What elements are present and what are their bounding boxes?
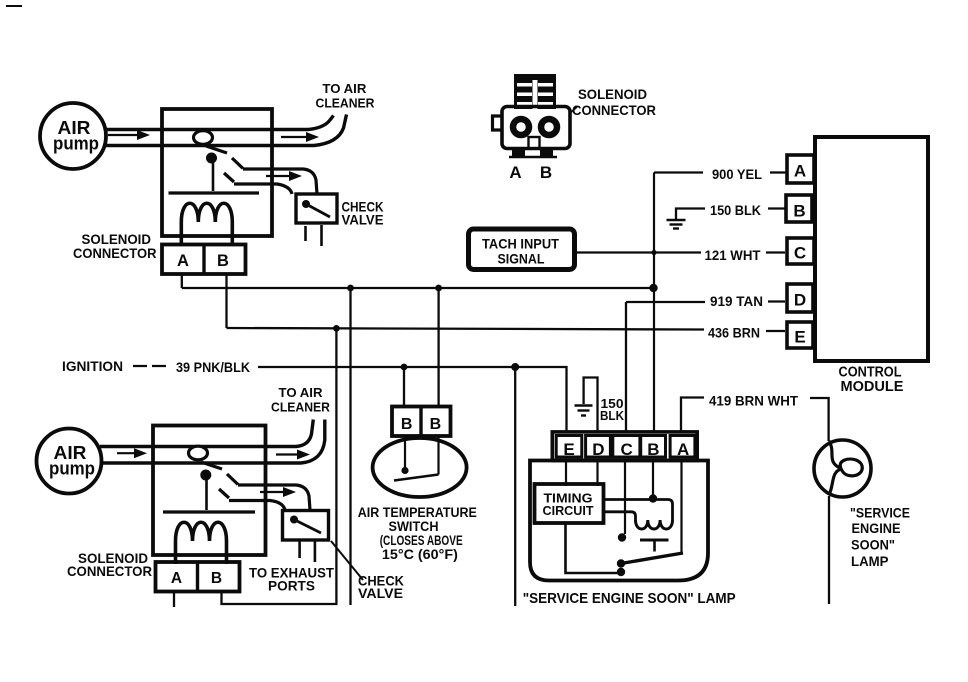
wire to air temp switch left B bbox=[403, 367, 405, 407]
svg-text:E: E bbox=[563, 440, 574, 459]
tach input signal box bbox=[469, 229, 575, 270]
label SOLENOID CONNECTOR (top-left) bbox=[73, 231, 157, 261]
label CHECK VALVE (bottom) bbox=[358, 573, 404, 601]
timing to blade L wire bbox=[566, 523, 619, 573]
pipe to check valve 1 (upper line) bbox=[243, 169, 317, 194]
pipe to check valve 1 (lower line) bbox=[234, 184, 292, 194]
air temp switch left lead bbox=[404, 436, 406, 467]
ground for 150 BLK (module pin B) bbox=[676, 209, 705, 220]
wire 919 TAN from corner to pin D bbox=[626, 301, 705, 303]
svg-text:D: D bbox=[592, 440, 604, 459]
lamp pin A bbox=[670, 436, 695, 458]
valve pivot circle 1 bbox=[194, 131, 213, 145]
air pump 1 (circle) bbox=[40, 103, 106, 169]
solenoid connector icon: left tab bbox=[493, 116, 503, 130]
svg-text:A: A bbox=[171, 570, 182, 587]
label SOLENOID CONNECTOR (icon) bbox=[572, 86, 656, 118]
air temp switch B connector boxes bbox=[392, 407, 451, 437]
solenoid connector icon: ribbed wire top bbox=[514, 74, 556, 109]
check valve 1 pivot dot bbox=[302, 200, 310, 208]
svg-text:pump: pump bbox=[53, 134, 99, 154]
lamp pin B bbox=[641, 436, 666, 458]
svg-text:D: D bbox=[794, 291, 806, 310]
air temp switch contact dot bbox=[401, 467, 408, 474]
lamp lead A down to blade bbox=[680, 461, 682, 553]
svg-text:B: B bbox=[211, 570, 222, 587]
lamp lead D to timing bbox=[596, 461, 598, 487]
svg-text:15°C (60°F): 15°C (60°F) bbox=[382, 547, 458, 562]
pipe pump2 to air cleaner (upper line) bbox=[100, 420, 313, 447]
wire pin A top connector down bbox=[181, 274, 183, 288]
label TO AIR CLEANER (bottom) bbox=[271, 385, 331, 414]
wire tach box to main vertical bbox=[577, 251, 701, 253]
wire 150 BLK dash to pin B bbox=[768, 207, 785, 209]
node tach junction bbox=[651, 250, 656, 255]
label AIR TEMPERATURE SWITCH bbox=[358, 505, 477, 562]
pipe from pump1 (lower line) bbox=[104, 115, 347, 146]
svg-text:B: B bbox=[540, 163, 552, 182]
wire 419 BRN WHT to bulb bbox=[810, 398, 829, 441]
check valve 2 leg right bbox=[314, 540, 317, 562]
timing circuit box bbox=[535, 484, 604, 523]
lamp pin E bbox=[556, 436, 582, 458]
node ignition-x404 bbox=[401, 364, 408, 371]
node row1-x350 bbox=[347, 285, 354, 292]
svg-text:39 PNK/BLK: 39 PNK/BLK bbox=[176, 359, 250, 375]
valve arm diagonal 1 bbox=[206, 146, 227, 153]
air pump 1 label bbox=[53, 118, 99, 154]
svg-text:CONNECTOR: CONNECTOR bbox=[73, 245, 157, 261]
svg-text:B: B bbox=[401, 416, 413, 433]
valve plunger dot 1 bbox=[206, 153, 217, 164]
svg-text:919 TAN: 919 TAN bbox=[710, 293, 763, 309]
svg-text:ENGINE: ENGINE bbox=[852, 520, 901, 536]
svg-text:PORTS: PORTS bbox=[268, 578, 315, 594]
check valve 2 pivot dot bbox=[290, 516, 298, 524]
check valve 1 leg left bbox=[304, 226, 307, 241]
svg-text:SOLENOID: SOLENOID bbox=[578, 86, 647, 102]
relay coil bottom line bbox=[604, 512, 636, 520]
ground 150 BLK near lamp bbox=[584, 378, 598, 433]
svg-text:436 BRN: 436 BRN bbox=[708, 325, 760, 341]
svg-text:150 BLK: 150 BLK bbox=[710, 202, 761, 218]
label TO AIR CLEANER (top) bbox=[316, 81, 376, 110]
valve stem 1 bbox=[212, 163, 215, 191]
module pin A bbox=[787, 155, 814, 183]
wire 436 BRN dash to pin E bbox=[700, 330, 785, 332]
svg-text:SIGNAL: SIGNAL bbox=[498, 251, 545, 267]
relay coil top line bbox=[604, 500, 673, 521]
valve plunger dot 2 bbox=[200, 470, 211, 481]
check valve 2 box bbox=[283, 511, 329, 541]
arrow pump1 to valve bbox=[108, 134, 140, 136]
wire dangling x350 bbox=[349, 288, 351, 605]
svg-text:LAMP: LAMP bbox=[851, 553, 889, 569]
lamp lead B to coil bbox=[652, 461, 654, 500]
label TO EXHAUST PORTS bbox=[249, 565, 334, 594]
svg-text:VALVE: VALVE bbox=[358, 585, 403, 601]
valve pivot circle 2 bbox=[189, 446, 208, 460]
valve flow diagonal lower 1 bbox=[224, 173, 234, 182]
stray mark top-left bbox=[6, 5, 22, 7]
solenoid connector icon: index notch bbox=[529, 137, 540, 148]
lamp lead C to contact bbox=[624, 461, 626, 535]
svg-text:BLK: BLK bbox=[600, 408, 625, 423]
check valve 1 flap bbox=[306, 204, 330, 217]
relay switch blade bbox=[621, 553, 683, 564]
svg-text:pump: pump bbox=[49, 459, 95, 479]
solenoid connector icon: feet bbox=[512, 149, 525, 157]
bulb filament upper curve bbox=[829, 441, 841, 469]
main vertical wire (900YEL/TACH/row1 to lamp pin B) bbox=[653, 173, 655, 433]
svg-text:CONNECTOR: CONNECTOR bbox=[67, 563, 152, 579]
wire 900 YEL left segment bbox=[654, 171, 703, 173]
wire pin B top connector down bbox=[225, 274, 227, 328]
leader line check valve 2 label bbox=[331, 541, 363, 580]
svg-text:"SERVICE: "SERVICE bbox=[850, 505, 910, 521]
svg-text:C: C bbox=[621, 440, 633, 459]
module pin C bbox=[787, 238, 814, 264]
svg-text:B: B bbox=[647, 440, 659, 459]
arrow pump2 to valve bbox=[117, 452, 137, 454]
lamp body outline bbox=[530, 461, 708, 581]
wire row2 (436 BRN bus) bbox=[227, 328, 701, 330]
label SERVICE ENGINE SOON LAMP (right) bbox=[850, 505, 910, 570]
svg-text:419 BRN WHT: 419 BRN WHT bbox=[709, 393, 798, 409]
solenoid connector 1 (A/B box) bbox=[162, 245, 246, 275]
wire lamp pin A up to 419 BRN WHT bbox=[681, 398, 704, 432]
check valve 2 flap bbox=[294, 520, 321, 534]
check valve 1 box bbox=[296, 194, 337, 223]
svg-text:IGNITION: IGNITION bbox=[62, 358, 123, 374]
check valve 2 leg left bbox=[298, 540, 301, 558]
svg-text:TO AIR: TO AIR bbox=[322, 81, 367, 96]
solenoid connector 2 (A/B box) bbox=[156, 562, 240, 592]
relay blade pivot dots bbox=[617, 559, 625, 567]
wire dangling x515 bbox=[514, 367, 516, 606]
wire ignition to lamp pin E bbox=[258, 367, 567, 432]
pipe pump2 (lower line) bbox=[100, 420, 325, 464]
svg-text:CONNECTOR: CONNECTOR bbox=[572, 102, 656, 118]
arrow in pipe to check valve 1 bbox=[266, 175, 293, 177]
valve stem 2 bbox=[205, 480, 208, 510]
valve flow diagonal upper 2 bbox=[227, 474, 238, 485]
svg-text:CLEANER: CLEANER bbox=[316, 95, 376, 110]
svg-text:MODULE: MODULE bbox=[841, 379, 904, 395]
wire to air temp switch right B bbox=[437, 288, 439, 407]
svg-text:A: A bbox=[177, 252, 189, 270]
check valve 1 leg right bbox=[320, 225, 323, 246]
ignition dashes bbox=[133, 365, 166, 367]
wire 121 WHT dash to pin C bbox=[766, 251, 785, 253]
lamp pin row outer box bbox=[552, 432, 697, 461]
node ignition-x515 bbox=[511, 363, 519, 371]
control module box bbox=[815, 137, 928, 361]
svg-text:B: B bbox=[430, 416, 442, 433]
svg-text:900 YEL: 900 YEL bbox=[712, 166, 762, 182]
svg-text:AIR TEMPERATURE: AIR TEMPERATURE bbox=[358, 505, 477, 520]
svg-text:A: A bbox=[509, 163, 521, 182]
svg-text:TACH INPUT: TACH INPUT bbox=[482, 236, 559, 252]
bulb filament loop bbox=[840, 459, 862, 476]
relay coil windings bbox=[636, 520, 673, 529]
label CONTROL MODULE bbox=[839, 365, 904, 396]
svg-text:CLEANER: CLEANER bbox=[271, 399, 331, 414]
air management valve box 2 bbox=[153, 426, 266, 556]
arrow in pipe after valve box 1 bbox=[281, 136, 310, 138]
lamp pin D bbox=[586, 436, 611, 458]
svg-text:(CLOSES ABOVE: (CLOSES ABOVE bbox=[380, 533, 463, 548]
arrow in pipe to check valve 2 bbox=[260, 491, 287, 493]
relay contact dot (C) bbox=[618, 533, 626, 541]
bulb circle bbox=[814, 440, 871, 497]
lamp pin C bbox=[613, 436, 640, 458]
solenoid connector icon: terminal ring B bbox=[541, 119, 557, 135]
check valve 1 label bbox=[342, 199, 384, 228]
wire below bulb bbox=[828, 496, 830, 604]
bulb filament lower curve bbox=[829, 469, 841, 495]
svg-text:TO AIR: TO AIR bbox=[279, 385, 324, 400]
solenoid coil 2 bbox=[176, 522, 227, 564]
svg-text:121 WHT: 121 WHT bbox=[705, 247, 761, 263]
valve seat line 2 bbox=[163, 510, 255, 513]
air management valve box 1 bbox=[162, 109, 272, 236]
solenoid coil 1 bbox=[181, 203, 232, 246]
air temp switch body (ellipse) bbox=[373, 438, 467, 497]
svg-text:C: C bbox=[794, 244, 806, 263]
module pin E bbox=[787, 322, 813, 348]
solenoid connector icon: terminal ring A bbox=[513, 119, 529, 135]
svg-text:A: A bbox=[794, 162, 806, 181]
relay armature T bar bbox=[640, 539, 669, 542]
svg-text:A: A bbox=[677, 440, 689, 459]
svg-text:"SERVICE ENGINE SOON" LAMP: "SERVICE ENGINE SOON" LAMP bbox=[523, 590, 736, 607]
arrow in pipe after valve box 2 bbox=[276, 453, 300, 455]
node row1-x438 bbox=[435, 285, 442, 292]
wire x336 down to bottom connector B bbox=[222, 328, 337, 604]
valve arm diagonal 2 bbox=[201, 462, 222, 469]
solenoid connector icon: body bbox=[502, 107, 570, 149]
label 150 BLK (lamp) bbox=[600, 396, 625, 423]
svg-text:E: E bbox=[794, 328, 805, 347]
label IGNITION bbox=[62, 358, 250, 375]
air temp switch blade bbox=[394, 475, 439, 481]
air pump 2 (circle) bbox=[37, 429, 102, 494]
svg-text:CIRCUIT: CIRCUIT bbox=[543, 503, 594, 518]
wire 900 YEL dash to pin A bbox=[770, 171, 786, 173]
svg-text:SWITCH: SWITCH bbox=[389, 519, 439, 534]
pipe to check valve 2 (lower line) bbox=[229, 501, 285, 511]
valve seat line 1 bbox=[169, 191, 260, 194]
node row1-main vertical bbox=[649, 284, 657, 292]
air temp switch right lead bbox=[437, 436, 439, 475]
svg-text:B: B bbox=[793, 202, 805, 221]
wire 919 TAN down to lamp pin C bbox=[625, 302, 627, 432]
pipe to check valve 2 (upper line) bbox=[238, 485, 310, 510]
solenoid connector icon: pin letters bbox=[509, 163, 552, 182]
lamp lead E to timing bbox=[565, 461, 567, 487]
label SOLENOID CONNECTOR (bottom-left) bbox=[67, 550, 152, 579]
valve flow diagonal upper 1 bbox=[232, 158, 243, 169]
svg-text:B: B bbox=[217, 252, 229, 270]
pipe from pump1 through valve box to air cleaner (upper line) bbox=[104, 116, 334, 130]
node row2-x336 bbox=[333, 325, 340, 332]
svg-text:VALVE: VALVE bbox=[342, 211, 384, 227]
svg-text:SOON": SOON" bbox=[851, 537, 895, 553]
leader line to icon bbox=[570, 107, 577, 113]
node lead B / coil bbox=[649, 494, 657, 502]
wire bottom connector pin A stub bbox=[173, 592, 175, 608]
valve flow diagonal lower 2 bbox=[219, 489, 229, 498]
module pin B bbox=[786, 195, 812, 222]
module pin D bbox=[787, 284, 813, 312]
wire row1 (pin A bus) bbox=[182, 287, 654, 289]
